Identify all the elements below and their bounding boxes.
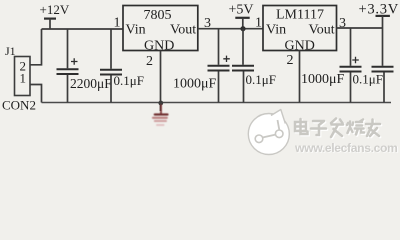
- svg-text:Vout: Vout: [309, 23, 335, 38]
- wire: 7805 GND to ground: [160, 51, 162, 112]
- svg-text:+5V: +5V: [229, 3, 254, 18]
- svg-text:2: 2: [146, 54, 153, 69]
- ground symbol (red earth): [153, 105, 168, 125]
- svg-text:2200μF: 2200μF: [70, 76, 112, 91]
- svg-text:Vin: Vin: [126, 23, 146, 38]
- wire: +12V rail top-left: [42, 28, 124, 30]
- watermark logo circle: [248, 110, 289, 155]
- capacitor C5 1000uF: [340, 28, 362, 103]
- power symbol +3.3V: [376, 16, 390, 28]
- capacitor C6 0.1uF: [372, 28, 394, 103]
- svg-text:1000μF: 1000μF: [173, 77, 217, 92]
- wire: connector pin1 to ground rail: [30, 85, 42, 103]
- junction dot ground node: [158, 101, 163, 106]
- svg-text:2: 2: [287, 53, 294, 68]
- svg-text:1: 1: [114, 16, 121, 31]
- svg-text:1: 1: [20, 71, 27, 86]
- junction dot +5V node: [240, 26, 245, 31]
- wire: LM1117 Vout rail to +3.3V: [337, 27, 383, 29]
- regulator U2 LM1117 box: [263, 6, 337, 51]
- svg-text:J1: J1: [5, 44, 16, 58]
- svg-text:+12V: +12V: [40, 2, 70, 17]
- ground rail: [42, 102, 392, 104]
- power symbol +12V: [44, 19, 56, 29]
- svg-text:7805: 7805: [144, 8, 172, 23]
- connector J1 box: [15, 57, 31, 96]
- regulator U1 7805 box: [123, 6, 198, 51]
- svg-text:0.1μF: 0.1μF: [246, 72, 276, 87]
- wire: LM1117 GND to ground rail: [299, 51, 301, 103]
- svg-text:LM1117: LM1117: [276, 8, 324, 23]
- wire: 7805 Vout to LM1117 Vin rail: [198, 28, 263, 30]
- svg-text:Vin: Vin: [266, 23, 286, 38]
- svg-text:Vout: Vout: [170, 23, 196, 38]
- svg-text:www.elecfans.com: www.elecfans.com: [294, 141, 398, 155]
- capacitor C3 1000uF: [208, 29, 230, 103]
- power symbol +5V: [235, 18, 249, 29]
- svg-text:0.1μF: 0.1μF: [353, 72, 383, 87]
- svg-text:1: 1: [255, 15, 262, 30]
- capacitor C2 0.1uF: [100, 29, 122, 103]
- svg-text:1000μF: 1000μF: [301, 72, 345, 87]
- svg-text:0.1μF: 0.1μF: [114, 73, 144, 88]
- capacitor C1 2200uF: [57, 29, 79, 103]
- capacitor C4 0.1uF: [232, 29, 254, 103]
- wire: connector pin2 riser: [30, 29, 42, 65]
- watermark chinese text 电子发烧友 (approximated strokes): [296, 120, 381, 139]
- svg-text:GND: GND: [144, 39, 174, 54]
- svg-text:+3.3V: +3.3V: [359, 2, 400, 18]
- svg-text:CON2: CON2: [2, 98, 36, 113]
